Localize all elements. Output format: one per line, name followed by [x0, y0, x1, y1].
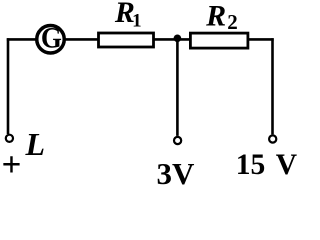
svg-text:2: 2: [227, 10, 238, 34]
svg-text:V: V: [276, 149, 297, 181]
galvanometer G: [37, 21, 65, 54]
svg-text:R: R: [205, 0, 226, 32]
resistor R2: [190, 33, 248, 48]
svg-text:+: +: [2, 145, 22, 184]
svg-text:L: L: [25, 126, 46, 162]
wire middle vertical: [176, 38, 179, 136]
svg-text:15: 15: [236, 149, 265, 181]
terminal 15V (open circle): [269, 135, 276, 142]
wire G to R1: [66, 38, 99, 41]
node junction dot: [174, 35, 182, 43]
svg-text:G: G: [41, 21, 62, 54]
terminal 3V (open circle): [174, 137, 181, 144]
svg-text:3V: 3V: [157, 156, 196, 185]
resistor R1: [99, 33, 154, 47]
terminal L (open circle): [6, 135, 13, 142]
wire top-left horizontal: [7, 38, 36, 41]
wire R2 to right corner: [248, 38, 274, 41]
svg-text:1: 1: [132, 11, 142, 32]
wire left vertical: [7, 38, 10, 134]
wire R1 to R2: [154, 38, 191, 41]
wire right vertical: [271, 38, 274, 134]
